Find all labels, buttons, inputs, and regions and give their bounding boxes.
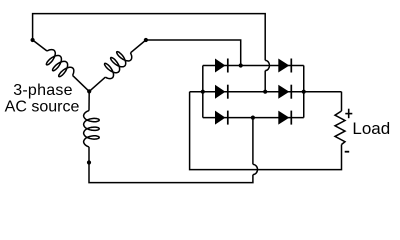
- svg-text:3-phase: 3-phase: [13, 82, 73, 99]
- svg-text:Load: Load: [352, 119, 390, 138]
- svg-text:AC source: AC source: [5, 98, 80, 115]
